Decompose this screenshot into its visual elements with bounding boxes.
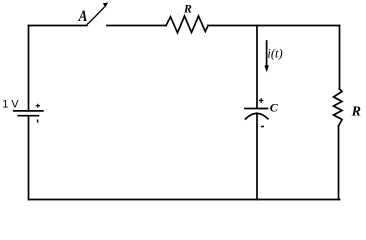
svg-text:R: R xyxy=(183,2,192,16)
svg-text:A: A xyxy=(78,8,88,25)
svg-text:R: R xyxy=(351,104,361,119)
svg-text:i(t): i(t) xyxy=(267,46,282,60)
svg-text:C: C xyxy=(270,101,279,115)
svg-text:1 V: 1 V xyxy=(2,98,19,110)
